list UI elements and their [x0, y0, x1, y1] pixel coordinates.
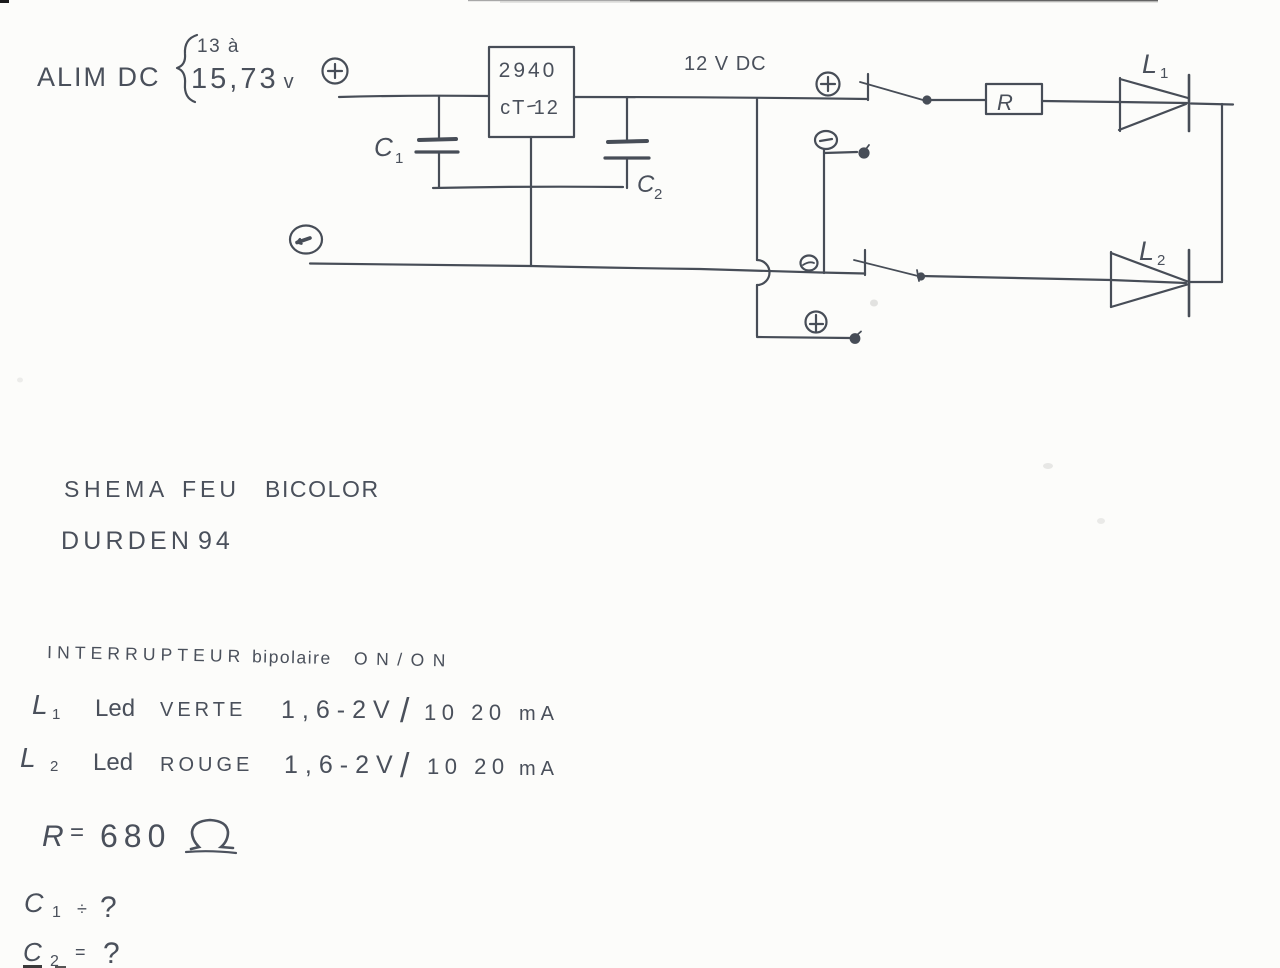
- wire - terminal to dot: [824, 145, 869, 158]
- terminal + output top: [817, 73, 840, 96]
- wire hop over bottom rail: [757, 260, 770, 285]
- label 15,73 V: [191, 63, 297, 95]
- svg-text:L: L: [1142, 49, 1157, 79]
- capacitor C2 label: [637, 171, 662, 203]
- svg-text:=: =: [75, 942, 86, 962]
- svg-text:680: 680: [100, 818, 171, 854]
- LED L1 label: [1142, 49, 1168, 82]
- svg-text:C: C: [637, 171, 655, 198]
- svg-text:L: L: [32, 689, 48, 720]
- LED L2 label: [1139, 236, 1165, 269]
- label 13 a: [197, 36, 240, 57]
- resistor R: [986, 84, 1042, 115]
- wire top rail input: [339, 96, 489, 97]
- label ALIM DC supply: [37, 62, 161, 92]
- svg-text:÷: ÷: [77, 899, 87, 919]
- terminal - output upper: [815, 131, 837, 149]
- wire switch to LED L2: [921, 276, 1111, 280]
- wire caps bottom rail: [433, 187, 623, 188]
- wire resistor to LED L1: [1042, 101, 1120, 102]
- svg-text:2: 2: [50, 953, 59, 968]
- svg-text:?: ?: [103, 937, 120, 968]
- svg-text:2: 2: [654, 186, 662, 203]
- note R value: [42, 818, 236, 854]
- title DURDEN 94: [61, 527, 234, 555]
- capacitor C1: [416, 96, 458, 187]
- svg-text:/: /: [400, 692, 410, 730]
- terminal + output bottom: [806, 312, 827, 333]
- svg-text:ALIM DC: ALIM DC: [37, 62, 161, 92]
- svg-text:2: 2: [1157, 252, 1165, 269]
- wire bottom rail: [310, 264, 865, 274]
- svg-text:mA: mA: [519, 758, 559, 780]
- wire right rail: [1190, 104, 1233, 283]
- svg-text:1: 1: [52, 706, 60, 723]
- svg-text:10 20: 10 20: [427, 754, 510, 779]
- note C1 value: [24, 888, 117, 924]
- wire regulator ground pin: [530, 137, 532, 266]
- terminal - ALIM: [290, 226, 322, 254]
- label 12 V DC: [684, 53, 767, 75]
- svg-text:/: /: [400, 747, 410, 785]
- LED L2: [1111, 250, 1189, 316]
- svg-text:2: 2: [50, 758, 58, 775]
- note C2 value: [23, 937, 120, 968]
- svg-text:mA: mA: [519, 703, 559, 725]
- terminal + ALIM: [323, 59, 348, 84]
- capacitor C2: [605, 97, 649, 188]
- svg-text:R: R: [42, 820, 64, 853]
- title SHEMA FEU BICOLOR: [64, 476, 380, 502]
- svg-text:ROUGE: ROUGE: [160, 754, 253, 776]
- svg-text:?: ?: [100, 891, 117, 924]
- svg-text:VERTE: VERTE: [160, 699, 246, 721]
- wire top rail regulator to switch: [574, 97, 868, 99]
- svg-text:1: 1: [395, 150, 403, 167]
- svg-text:cT 12: cT 12: [500, 97, 560, 119]
- svg-text:DURDEN94: DURDEN94: [61, 527, 234, 555]
- svg-text:1: 1: [1160, 65, 1168, 82]
- wire switch to resistor: [930, 99, 986, 101]
- switch S1b bottom: [801, 250, 925, 281]
- regulator U1 2940 CT12: [489, 47, 574, 137]
- brace supply voltage range: [177, 35, 197, 102]
- note L1 Led VERTE: [32, 689, 559, 730]
- svg-text:C: C: [24, 888, 44, 918]
- wire hop continuation down: [756, 285, 758, 336]
- svg-text:=: =: [70, 819, 84, 846]
- wire switch center pole: [823, 153, 825, 273]
- svg-text:L: L: [20, 742, 36, 773]
- svg-text:Led: Led: [95, 695, 135, 722]
- svg-text:1: 1: [52, 904, 61, 921]
- svg-text:SHEMAFEUBICOLOR: SHEMAFEUBICOLOR: [64, 476, 380, 502]
- capacitor C1 label: [374, 132, 403, 167]
- svg-text:10 20: 10 20: [424, 700, 507, 725]
- wire to + output terminal: [757, 332, 861, 343]
- svg-text:L: L: [1139, 236, 1154, 266]
- svg-text:C: C: [23, 937, 42, 967]
- svg-text:1,6-2V: 1,6-2V: [281, 696, 397, 724]
- svg-text:R: R: [997, 90, 1013, 115]
- svg-text:13 à: 13 à: [197, 36, 240, 57]
- LED L1: [1119, 75, 1189, 131]
- switch S1a top: [860, 74, 931, 104]
- note interrupteur: [47, 642, 454, 671]
- svg-text:12 V DC: 12 V DC: [684, 53, 767, 75]
- svg-text:C: C: [374, 132, 393, 162]
- svg-text:Led: Led: [93, 749, 133, 776]
- svg-text:2940: 2940: [499, 59, 558, 82]
- wire branch 12V down to switch pole: [756, 99, 758, 260]
- note L2 Led ROUGE: [20, 742, 559, 785]
- svg-text:1,6-2V: 1,6-2V: [284, 751, 400, 779]
